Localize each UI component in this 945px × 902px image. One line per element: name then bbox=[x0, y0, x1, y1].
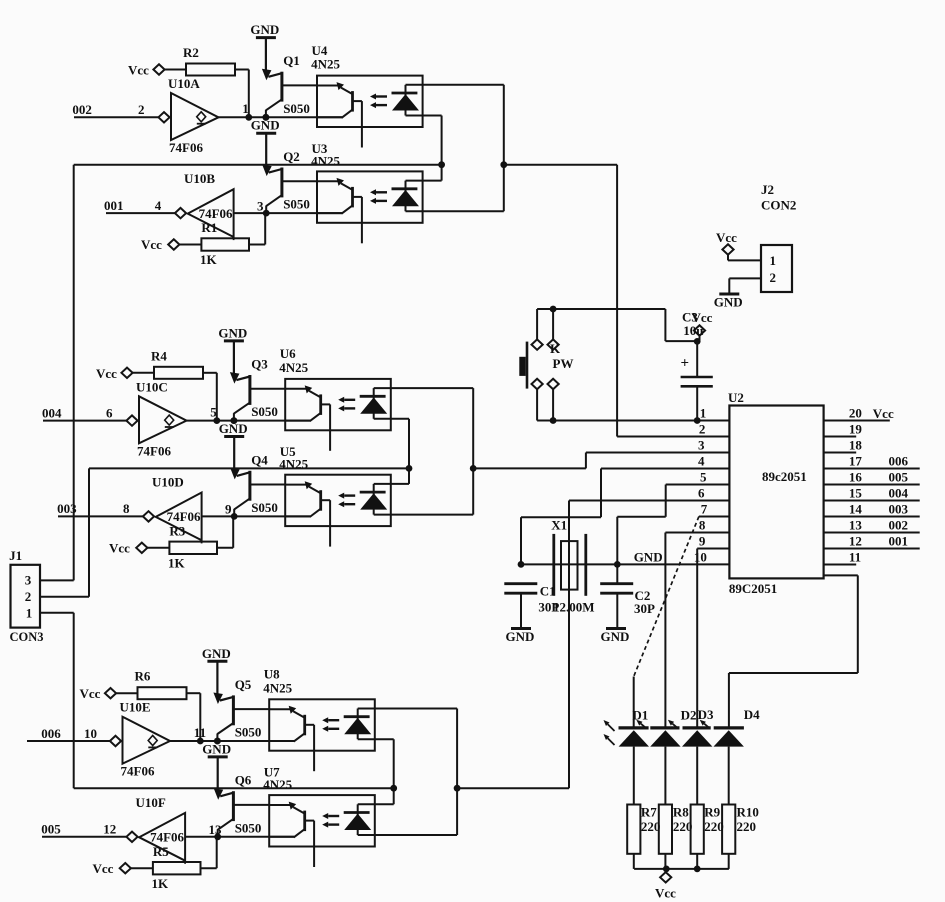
svg-text:74F06: 74F06 bbox=[121, 764, 155, 779]
svg-text:GND: GND bbox=[218, 325, 247, 340]
svg-text:Q5: Q5 bbox=[235, 677, 252, 692]
svg-text:Vcc: Vcc bbox=[716, 230, 737, 245]
svg-text:Q4: Q4 bbox=[251, 452, 268, 467]
svg-text:1K: 1K bbox=[168, 555, 186, 570]
svg-text:J2: J2 bbox=[761, 182, 774, 197]
svg-text:4: 4 bbox=[698, 454, 705, 469]
svg-text:U10E: U10E bbox=[120, 700, 151, 715]
svg-text:12: 12 bbox=[103, 822, 116, 837]
svg-text:8: 8 bbox=[699, 518, 706, 533]
svg-text:U2: U2 bbox=[728, 390, 744, 405]
svg-text:004: 004 bbox=[42, 405, 62, 420]
svg-text:D1: D1 bbox=[632, 708, 648, 723]
svg-text:U10C: U10C bbox=[136, 379, 168, 394]
svg-text:R8: R8 bbox=[673, 805, 689, 820]
svg-text:001: 001 bbox=[104, 198, 124, 213]
svg-text:GND: GND bbox=[202, 646, 231, 661]
svg-text:006: 006 bbox=[41, 726, 61, 741]
svg-text:S050: S050 bbox=[235, 820, 262, 835]
svg-text:PW: PW bbox=[553, 356, 574, 371]
svg-text:C1: C1 bbox=[540, 583, 556, 598]
svg-text:Q3: Q3 bbox=[251, 357, 268, 372]
svg-text:20: 20 bbox=[849, 406, 862, 421]
svg-text:220: 220 bbox=[704, 819, 724, 834]
svg-text:4N25: 4N25 bbox=[263, 777, 292, 792]
svg-text:3: 3 bbox=[257, 198, 264, 213]
svg-text:1: 1 bbox=[26, 606, 33, 621]
svg-text:D3: D3 bbox=[698, 707, 714, 722]
svg-text:4N25: 4N25 bbox=[311, 153, 340, 168]
svg-text:S050: S050 bbox=[283, 101, 310, 116]
svg-text:U10F: U10F bbox=[136, 795, 166, 810]
svg-text:D2: D2 bbox=[681, 708, 697, 723]
svg-text:CON2: CON2 bbox=[761, 198, 796, 213]
svg-text:R7: R7 bbox=[641, 805, 657, 820]
svg-text:R9: R9 bbox=[704, 805, 720, 820]
svg-text:S050: S050 bbox=[251, 404, 278, 419]
svg-text:S050: S050 bbox=[251, 500, 278, 515]
svg-text:74F06: 74F06 bbox=[199, 206, 233, 221]
svg-text:Vcc: Vcc bbox=[128, 63, 149, 78]
svg-text:89C2051: 89C2051 bbox=[729, 581, 777, 596]
svg-text:10: 10 bbox=[694, 550, 707, 565]
svg-text:18: 18 bbox=[849, 438, 863, 453]
svg-text:74F06: 74F06 bbox=[167, 509, 201, 524]
svg-text:220: 220 bbox=[641, 819, 661, 834]
svg-text:Vcc: Vcc bbox=[96, 366, 117, 381]
svg-text:19: 19 bbox=[849, 422, 863, 437]
svg-text:1: 1 bbox=[770, 253, 777, 268]
svg-text:7: 7 bbox=[701, 502, 708, 517]
svg-text:002: 002 bbox=[72, 102, 92, 117]
svg-text:12: 12 bbox=[849, 534, 862, 549]
svg-text:GND: GND bbox=[601, 629, 630, 644]
svg-text:R2: R2 bbox=[183, 45, 199, 60]
svg-text:30P: 30P bbox=[538, 600, 559, 615]
svg-text:R6: R6 bbox=[135, 669, 151, 684]
svg-text:X1: X1 bbox=[551, 518, 567, 533]
svg-text:220: 220 bbox=[673, 819, 693, 834]
svg-text:3: 3 bbox=[698, 438, 705, 453]
svg-text:74F06: 74F06 bbox=[150, 830, 184, 845]
svg-text:2: 2 bbox=[138, 102, 145, 117]
svg-text:005: 005 bbox=[41, 822, 61, 837]
svg-text:Vcc: Vcc bbox=[655, 886, 676, 901]
svg-text:001: 001 bbox=[889, 534, 909, 549]
svg-text:Vcc: Vcc bbox=[873, 406, 894, 421]
svg-text:006: 006 bbox=[889, 454, 909, 469]
svg-text:S050: S050 bbox=[235, 725, 262, 740]
svg-text:2: 2 bbox=[25, 589, 32, 604]
svg-text:GND: GND bbox=[634, 550, 663, 565]
svg-text:GND: GND bbox=[714, 295, 743, 310]
svg-text:9: 9 bbox=[225, 502, 232, 517]
svg-text:GND: GND bbox=[506, 629, 535, 644]
svg-text:005: 005 bbox=[889, 470, 909, 485]
svg-text:GND: GND bbox=[219, 421, 248, 436]
svg-text:U10D: U10D bbox=[152, 475, 184, 490]
svg-text:4N25: 4N25 bbox=[311, 57, 340, 72]
svg-text:R10: R10 bbox=[737, 805, 759, 820]
svg-text:U10B: U10B bbox=[184, 171, 215, 186]
svg-text:GND: GND bbox=[251, 118, 280, 133]
svg-text:15: 15 bbox=[849, 486, 863, 501]
svg-text:K: K bbox=[550, 341, 561, 356]
svg-text:Vcc: Vcc bbox=[80, 686, 101, 701]
svg-text:R5: R5 bbox=[153, 844, 169, 859]
svg-text:Q2: Q2 bbox=[283, 149, 300, 164]
svg-text:2: 2 bbox=[699, 422, 706, 437]
svg-text:S050: S050 bbox=[283, 197, 310, 212]
svg-text:003: 003 bbox=[889, 502, 909, 517]
svg-text:002: 002 bbox=[889, 518, 909, 533]
svg-text:5: 5 bbox=[700, 470, 707, 485]
svg-text:13: 13 bbox=[849, 518, 863, 533]
svg-text:3: 3 bbox=[25, 573, 32, 588]
svg-text:4: 4 bbox=[155, 198, 162, 213]
svg-text:10u: 10u bbox=[683, 323, 703, 338]
svg-text:1: 1 bbox=[700, 406, 707, 421]
svg-text:Q1: Q1 bbox=[283, 53, 300, 68]
svg-text:220: 220 bbox=[737, 819, 757, 834]
svg-text:8: 8 bbox=[123, 501, 130, 516]
svg-text:U10A: U10A bbox=[168, 76, 200, 91]
svg-text:6: 6 bbox=[106, 405, 113, 420]
svg-text:Vcc: Vcc bbox=[109, 540, 130, 555]
svg-text:Vcc: Vcc bbox=[141, 237, 162, 252]
svg-text:74F06: 74F06 bbox=[137, 443, 171, 458]
svg-text:14: 14 bbox=[849, 502, 863, 517]
svg-text:4N25: 4N25 bbox=[263, 680, 292, 695]
svg-text:1K: 1K bbox=[152, 876, 170, 891]
svg-text:1K: 1K bbox=[200, 252, 218, 267]
svg-text:11: 11 bbox=[849, 550, 861, 565]
svg-text:004: 004 bbox=[889, 486, 909, 501]
svg-text:17: 17 bbox=[849, 454, 863, 469]
svg-text:R4: R4 bbox=[151, 348, 167, 363]
svg-text:GND: GND bbox=[250, 22, 279, 37]
svg-text:Q6: Q6 bbox=[235, 773, 252, 788]
svg-text:4N25: 4N25 bbox=[279, 457, 308, 472]
svg-text:10: 10 bbox=[84, 726, 97, 741]
svg-text:GND: GND bbox=[202, 741, 231, 756]
svg-text:Vcc: Vcc bbox=[93, 861, 114, 876]
svg-text:+: + bbox=[681, 356, 690, 372]
svg-text:J1: J1 bbox=[9, 548, 22, 563]
svg-text:D4: D4 bbox=[744, 707, 760, 722]
svg-text:2: 2 bbox=[770, 270, 777, 285]
svg-text:9: 9 bbox=[699, 534, 706, 549]
svg-text:89c2051: 89c2051 bbox=[762, 469, 807, 484]
svg-text:R1: R1 bbox=[201, 220, 217, 235]
svg-text:R3: R3 bbox=[169, 523, 185, 538]
svg-text:CON3: CON3 bbox=[10, 630, 44, 644]
svg-text:6: 6 bbox=[698, 486, 705, 501]
svg-text:30P: 30P bbox=[634, 601, 655, 616]
svg-text:16: 16 bbox=[849, 470, 863, 485]
svg-text:4N25: 4N25 bbox=[279, 360, 308, 375]
svg-text:74F06: 74F06 bbox=[169, 140, 203, 155]
